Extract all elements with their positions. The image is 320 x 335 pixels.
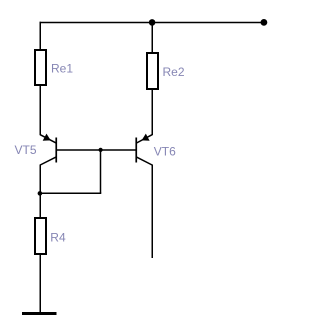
ground — [22, 312, 57, 315]
transistor VT6 emitter diagonal — [136, 135, 152, 143]
resistor R4 — [35, 218, 46, 254]
svg-text:R4: R4 — [50, 231, 66, 245]
node collector-R4 junction — [38, 191, 43, 196]
wire Re2 bottom to VT6 emitter — [151, 89, 153, 135]
wire top junction to Re2 — [151, 23, 153, 54]
resistor Re2 — [147, 53, 158, 89]
transistor VT6 collector diagonal — [136, 157, 152, 165]
node right rail terminal — [261, 19, 268, 26]
wire base line VT5 to VT6 — [56, 149, 136, 151]
wire junction to R4 top — [39, 193, 41, 218]
wire R4 bottom to ground — [39, 254, 41, 313]
transistor VT5 collector diagonal — [40, 157, 56, 165]
svg-text:Re2: Re2 — [163, 65, 185, 79]
svg-text:Re1: Re1 — [51, 62, 73, 76]
wire feedback vertical — [100, 150, 102, 194]
node top junction — [149, 19, 156, 26]
wire top horizontal rail — [40, 22, 265, 24]
transistor VT5 emitter arrow — [43, 134, 50, 140]
wire feedback horizontal — [40, 192, 102, 194]
transistor VT5 base bar — [55, 138, 57, 163]
wire Re1 bottom to VT5 emitter — [39, 85, 41, 135]
svg-text:VT5: VT5 — [15, 143, 37, 157]
node base-feedback junction — [99, 148, 103, 152]
wire VT6 collector output — [151, 165, 153, 259]
transistor VT6 emitter arrow — [142, 134, 149, 140]
resistor Re1 — [35, 50, 46, 85]
transistor VT5 emitter diagonal — [40, 135, 56, 143]
wire left vertical: rail to Re1 top — [39, 22, 41, 50]
svg-text:VT6: VT6 — [154, 144, 176, 158]
wire VT5 collector down — [39, 165, 41, 195]
transistor VT6 base bar — [135, 138, 137, 163]
